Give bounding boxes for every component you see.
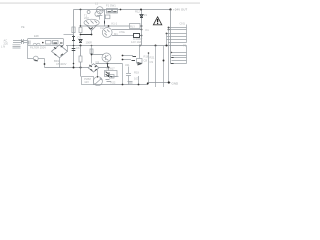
- svg-text:R19: R19: [134, 70, 139, 74]
- svg-text:PE: PE: [21, 25, 25, 29]
- svg-text:L N: L N: [1, 44, 5, 48]
- svg-text:R16: R16: [144, 55, 149, 59]
- svg-text:C5 400V: C5 400V: [56, 62, 67, 66]
- svg-text:C8: C8: [144, 59, 148, 63]
- svg-text:M1: M1: [114, 32, 118, 36]
- svg-text:22V: 22V: [84, 16, 89, 20]
- svg-text:12V 10A: 12V 10A: [131, 40, 142, 44]
- svg-text:U1 817: U1 817: [106, 67, 115, 71]
- svg-text:R22: R22: [111, 81, 116, 85]
- svg-text:470u: 470u: [119, 30, 125, 34]
- svg-text:C6: C6: [76, 46, 80, 50]
- svg-text:FILTER 250V: FILTER 250V: [30, 45, 46, 49]
- svg-text:R12: R12: [135, 10, 140, 14]
- svg-text:Z1: Z1: [144, 13, 148, 17]
- svg-text:F1 SW1: F1 SW1: [106, 4, 116, 8]
- svg-text:L1: L1: [95, 1, 98, 5]
- svg-text:K1: K1: [146, 28, 150, 32]
- svg-text:C9: C9: [150, 60, 154, 64]
- svg-text:CN1: CN1: [180, 21, 186, 25]
- svg-text:R21: R21: [150, 56, 155, 60]
- svg-text:+24V OUT: +24V OUT: [173, 7, 187, 11]
- svg-text:GND: GND: [172, 81, 180, 85]
- svg-text:EMI: EMI: [34, 34, 39, 38]
- svg-text:431: 431: [125, 63, 130, 67]
- svg-text:D3: D3: [78, 36, 82, 40]
- svg-text:K1-1: K1-1: [112, 22, 118, 26]
- svg-text:RLY: RLY: [130, 25, 135, 29]
- svg-text:100R: 100R: [86, 40, 92, 44]
- svg-text:12V: 12V: [84, 80, 89, 84]
